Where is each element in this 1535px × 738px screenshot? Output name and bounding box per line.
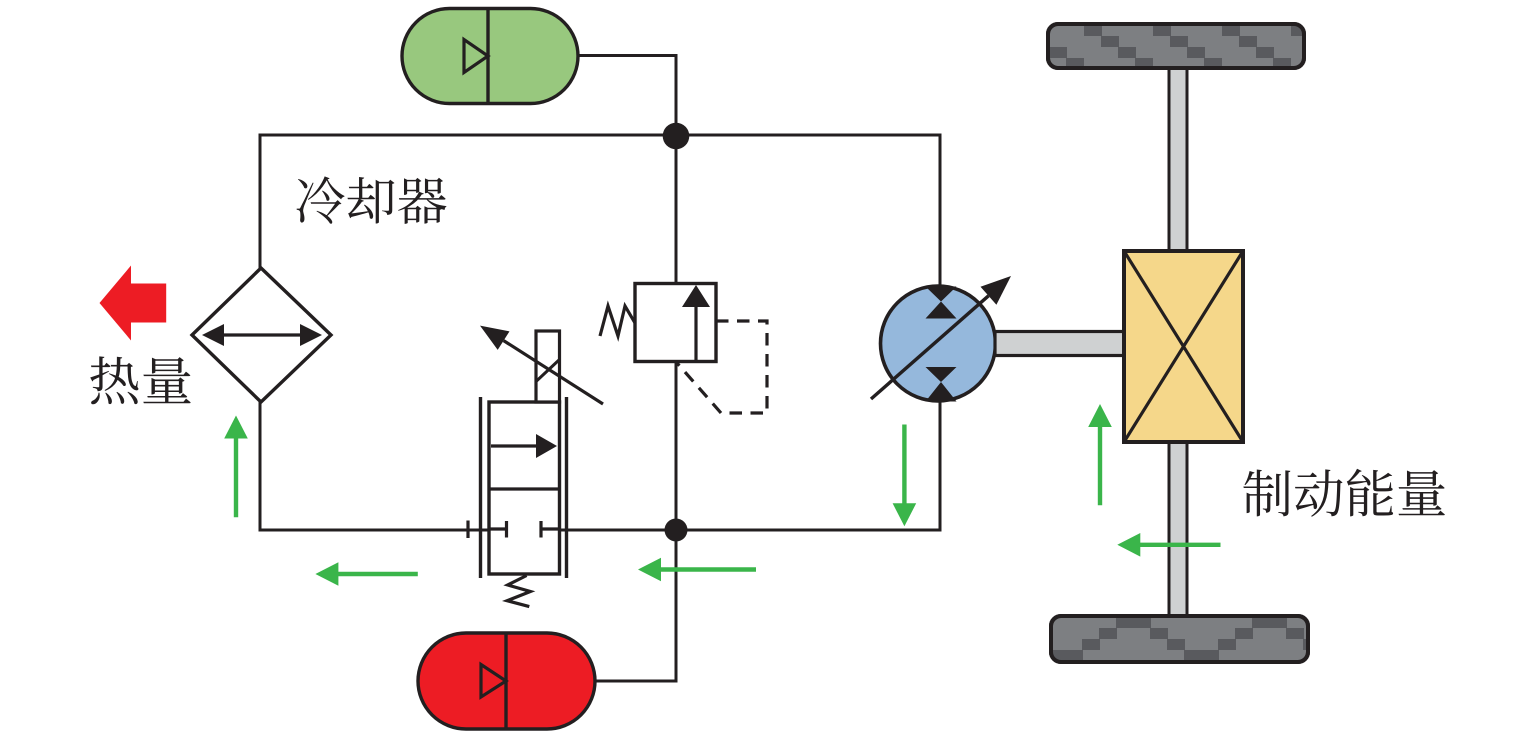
- label: re liang (heat): [90, 356, 190, 404]
- flow arrow up left of cooler: [224, 416, 248, 518]
- cooler heat exchanger diamond: [192, 268, 331, 402]
- horizontal drive shaft: [995, 332, 1124, 356]
- bottom axle shaft: [1169, 440, 1187, 618]
- flow arrow down at pump: [893, 425, 917, 527]
- wire: node B down to red accumulator: [595, 530, 676, 681]
- wire: top bus from cooler to pump: [260, 135, 940, 287]
- relief valve spring: [600, 306, 635, 336]
- valve spring: [507, 576, 530, 607]
- node A junction dot: [663, 123, 690, 150]
- node B junction dot: [665, 519, 688, 542]
- accumulator green (high pressure): [402, 9, 578, 104]
- valve right rail: [565, 397, 568, 578]
- valve pilot stem rect: [536, 331, 560, 402]
- directional valve body: [468, 326, 603, 607]
- wire: node A down to relief valve: [675, 136, 678, 284]
- port tick left of valve: [466, 521, 469, 539]
- wire: relief valve down to node B: [675, 361, 678, 530]
- pump variable arrow: [871, 296, 989, 399]
- relief valve pilot dashed line: [677, 321, 767, 413]
- energy arrow left at axle: [1117, 533, 1220, 557]
- variable pump motor circle: [871, 276, 1011, 402]
- wire: green accumulator to node A: [578, 56, 676, 137]
- label: leng que qi (cooler): [297, 176, 447, 223]
- pump bottom bowtie: [926, 367, 957, 402]
- label: zhi dong neng liang (braking energy): [1243, 469, 1445, 517]
- valve blocked ports: [489, 521, 560, 538]
- pump top bowtie: [926, 287, 957, 319]
- valve adjustment arrow: [504, 341, 603, 404]
- wheel top: [1015, 24, 1360, 69]
- wire: bottom bus cooler to pump: [260, 401, 940, 530]
- energy arrow up at gearbox: [1088, 404, 1112, 505]
- wheel bottom: [997, 616, 1406, 662]
- gearbox / final drive: [1124, 251, 1243, 442]
- top axle shaft: [1169, 66, 1187, 253]
- valve left rail: [479, 397, 482, 578]
- flow arrow left below bottom bus left: [315, 562, 417, 586]
- accumulator red (low pressure): [418, 633, 595, 729]
- relief valve: [600, 284, 767, 414]
- heat flow red block arrow: [100, 266, 167, 341]
- flow arrow left below bottom bus center: [638, 558, 756, 582]
- valve flow arrow: [491, 444, 538, 447]
